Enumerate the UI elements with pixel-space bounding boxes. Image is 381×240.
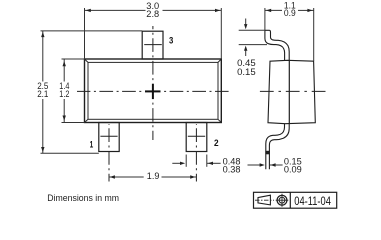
projection symbol cone [258, 195, 270, 205]
svg-text:2.1: 2.1 [37, 89, 48, 99]
svg-text:0.9: 0.9 [284, 8, 296, 18]
dim 2.5/2.1 line [42, 31, 44, 82]
svg-text:0.09: 0.09 [284, 165, 302, 175]
svg-text:0.15: 0.15 [237, 67, 256, 77]
dim 3.0/2.8 line [85, 9, 146, 11]
dim 0.45/0.15 extension lines [239, 29, 265, 31]
projection symbol circles [277, 195, 287, 205]
center cross [145, 90, 161, 92]
title block divider [289, 192, 291, 208]
body inner rectangle (mold chamfer) [88, 62, 218, 119]
bottom lead S-curve [266, 124, 285, 170]
dim 1.4/1.2 extension lines [62, 58, 85, 60]
lead section mark [265, 151, 269, 155]
dim 1.1/0.9 extension lines [264, 8, 266, 30]
chamfer corners [85, 59, 222, 123]
dim 0.48/0.38 extension lines [185, 155, 187, 167]
body outer rectangle (front view) [85, 59, 222, 123]
svg-text:1.9: 1.9 [147, 171, 160, 181]
svg-text:Dimensions in mm: Dimensions in mm [47, 193, 119, 203]
pin 2 (bottom right) [186, 123, 207, 152]
dim 2.5/2.1 extension lines [41, 30, 143, 32]
side body [268, 60, 315, 123]
pin 3 (top) [142, 31, 163, 59]
projection symbol cone centerline [255, 199, 274, 201]
pin 1 tick [100, 135, 117, 137]
svg-text:2.8: 2.8 [146, 9, 159, 19]
pin 1 centerline [108, 124, 110, 182]
svg-text:1: 1 [90, 139, 94, 149]
svg-text:2: 2 [214, 138, 219, 148]
svg-text:04-11-04: 04-11-04 [294, 194, 331, 208]
dim 3.0/2.8 extension lines [84, 8, 86, 59]
lead line through body [288, 60, 290, 123]
dim 1.1/0.9 line [265, 9, 282, 11]
svg-text:1.2: 1.2 [59, 89, 69, 99]
svg-text:0.38: 0.38 [223, 164, 241, 174]
svg-text:3: 3 [169, 36, 173, 46]
top lead S-curve [265, 29, 270, 31]
title block box [254, 192, 337, 208]
dim 1.9 line [109, 176, 144, 178]
pin 2 centerline [195, 124, 197, 182]
side centerline [260, 90, 327, 92]
horizontal centerline left [77, 90, 145, 92]
dim 0.48/0.38 arrows [172, 162, 181, 164]
pin 1 (bottom left) [99, 123, 119, 152]
dim 1.4/1.2 line [63, 59, 65, 82]
horizontal centerline right [161, 90, 229, 92]
vertical centerline lower [152, 99, 154, 140]
pin 2 tick [188, 135, 205, 137]
dim 0.45/0.15 arrows [245, 19, 247, 26]
pin 3 tick [144, 44, 162, 46]
vertical centerline upper [152, 26, 154, 84]
dim 0.15/0.09 arrows [248, 164, 261, 166]
